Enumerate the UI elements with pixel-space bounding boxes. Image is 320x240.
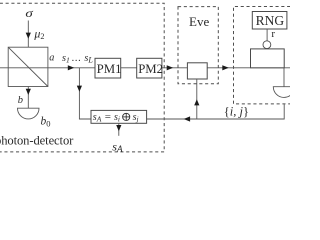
arrow on main line before junction (right) [68, 65, 75, 70]
arrow sA (down) [116, 125, 121, 131]
svg-text:photon-detector: photon-detector [0, 134, 74, 148]
svg-text:=: = [105, 111, 111, 123]
beamsplitter diagonal [8, 47, 48, 86]
Alice dashed box [0, 3, 164, 152]
wire: branch junction down from main line [79, 68, 91, 119]
xor symbol [123, 113, 130, 120]
arrow on branch (down) [77, 86, 82, 92]
svg-text:a: a [49, 53, 54, 64]
beamsplitter square [8, 47, 48, 86]
svg-text:s1...sL: s1...sL [62, 53, 93, 64]
Bob measurement rect [251, 49, 285, 68]
svg-text:sA: sA [93, 112, 102, 124]
detector dome (right, clipped) [273, 87, 294, 98]
svg-text:b0: b0 [41, 116, 51, 129]
PM1 box [95, 58, 121, 78]
svg-text:σ: σ [25, 8, 34, 20]
Eve dashed box [178, 7, 218, 84]
svg-text:RNG: RNG [256, 13, 285, 28]
wire: vertical input line from sigma into beamsplitter [27, 21, 29, 48]
svg-text:PM2: PM2 [138, 62, 163, 76]
svg-text:Eve: Eve [189, 14, 209, 29]
wire: Eve rect to Bob, continues to right edge [207, 67, 290, 69]
photon detector dome (left) [18, 108, 40, 119]
wire: sA output down [118, 123, 120, 136]
wire: from Eve rect bottom down to classical return line [196, 79, 198, 119]
svg-text:si: si [114, 112, 120, 124]
svg-text:b: b [18, 95, 23, 106]
wire: RNG to switch circle [266, 29, 268, 41]
svg-text:{i, j}: {i, j} [224, 104, 249, 118]
arrow up into Eve rect [194, 99, 199, 105]
arrow into Eve (right) [167, 65, 174, 70]
wire: vertical output b from beamsplitter to photon detector [27, 87, 29, 109]
svg-text:sj: sj [133, 112, 139, 124]
arrow left on classical line [184, 116, 191, 121]
sA box [91, 110, 147, 123]
RNG box [252, 12, 287, 30]
node r: switch circle [263, 41, 271, 49]
PM2 box [137, 58, 162, 78]
arrow mu2 (down) [26, 33, 31, 39]
svg-text:μ2: μ2 [33, 26, 44, 41]
arrow out of Eve toward Bob (right) [222, 65, 229, 70]
wire: PM2 to Eve box rect [162, 67, 188, 69]
wire: main horizontal beam line from left edge through beamsplitter to PM1 [0, 67, 95, 69]
Bob dashed box [234, 7, 297, 104]
Eve measurement rect U [187, 63, 207, 79]
svg-text:PM1: PM1 [97, 62, 122, 76]
svg-text:r: r [271, 28, 275, 40]
wire: classical info line from Bob down and left to sA box [147, 104, 285, 119]
arrow b (down) [26, 89, 31, 95]
wire: from Bob rect corner down to detector [283, 68, 285, 87]
wire: PM1 to PM2 [121, 67, 137, 69]
svg-text:sA: sA [112, 139, 123, 155]
